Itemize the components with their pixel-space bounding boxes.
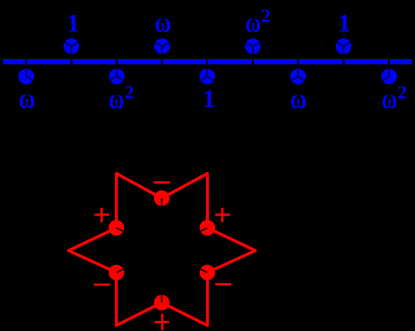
node C: blue dot above line (label omega^2) (245, 38, 261, 54)
node tick x=71.4 (70, 58, 72, 65)
node F: blue dot below line (label omega^2) (109, 69, 125, 85)
node N: red dot star lower-right (200, 265, 216, 281)
minus sign lower-left (94, 284, 110, 286)
node tick x=116.7 (116, 58, 118, 65)
svg-text:1: 1 (203, 84, 216, 113)
node D: blue dot above line (label 1) (336, 38, 352, 54)
node G: blue dot below line (label 1) (199, 69, 215, 85)
node O: red dot star bottom (154, 295, 170, 311)
minus sign above top red dot (154, 181, 170, 183)
svg-text:ω: ω (19, 83, 35, 115)
wire: red star outline (69, 174, 256, 326)
svg-text:ω: ω (155, 7, 171, 39)
plus sign upper-left (95, 208, 110, 222)
svg-text:1: 1 (338, 8, 351, 37)
plus sign upper-right (215, 208, 230, 222)
node K: red dot star upper-left (109, 220, 125, 236)
minus sign lower-right (215, 283, 231, 285)
node E: blue dot below line (label omega) (19, 69, 35, 85)
node tick x=343.5 (343, 58, 345, 65)
node tick x=162.1 (161, 58, 163, 65)
node A: blue dot above line (label 1) (64, 38, 80, 54)
node L: red dot star upper-right (200, 220, 216, 236)
svg-text:1: 1 (67, 8, 80, 37)
svg-text:ω: ω (290, 83, 306, 115)
node tick x=252.9 (252, 58, 254, 65)
node J: red dot star top (154, 190, 170, 206)
plus sign below bottom red dot (155, 314, 170, 330)
node M: red dot star lower-left (109, 265, 125, 281)
node tick x=389.0 (388, 58, 390, 65)
wire: blue base line (3, 59, 412, 64)
node tick x=298.0 (297, 58, 299, 65)
node B: blue dot above line (label omega) (154, 38, 170, 54)
node tick x=26.3 (25, 58, 27, 65)
node I: blue dot below line (label omega^2) (381, 69, 397, 85)
node tick x=207.2 (206, 58, 208, 65)
node H: blue dot below line (label omega) (290, 69, 306, 85)
